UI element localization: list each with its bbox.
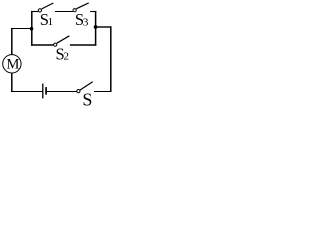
- wire left horizontal at junction A: [11, 28, 32, 30]
- wire left rail upper: [11, 28, 13, 55]
- node A junction dot: [30, 27, 34, 31]
- wire between S1 and S3: [55, 11, 73, 13]
- motor M circle: [3, 55, 21, 73]
- svg-text:1: 1: [48, 16, 54, 28]
- wire bottom right to switch S: [94, 91, 112, 93]
- svg-text:S: S: [82, 89, 92, 106]
- wire bottom to battery: [11, 91, 42, 93]
- wire inner right vertical: [95, 11, 97, 46]
- wire vertical A: [31, 11, 33, 46]
- svg-text:2: 2: [64, 51, 70, 63]
- battery cell: long positive plate: [42, 84, 44, 99]
- wire S3 blade to top-right corner: [90, 11, 96, 13]
- wire top-left segment: [31, 11, 38, 13]
- wire left rail lower: [11, 73, 13, 92]
- wire battery to switch S: [47, 91, 77, 93]
- switch S2: [54, 36, 70, 47]
- battery cell: short negative plate: [45, 87, 47, 95]
- switch S1: [38, 3, 53, 12]
- wire outer right rail: [110, 26, 112, 92]
- svg-text:M: M: [7, 56, 20, 72]
- switch S3: [73, 3, 89, 12]
- switch S: [77, 82, 93, 93]
- wire S2 branch left: [31, 44, 53, 46]
- node B junction dot: [94, 25, 98, 29]
- wire junction B to outer corner: [96, 26, 112, 28]
- wire S2 branch right: [70, 44, 96, 46]
- svg-text:3: 3: [83, 16, 89, 28]
